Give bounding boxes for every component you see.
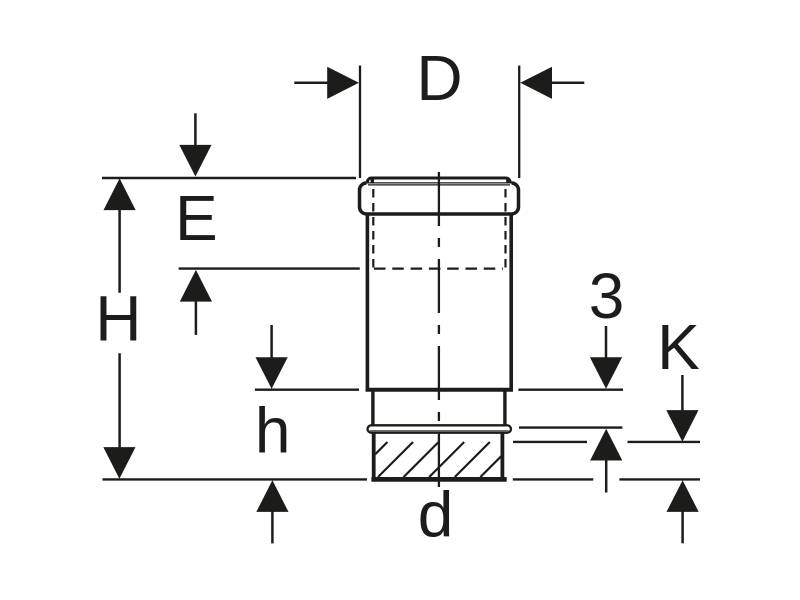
wire: h top reference line (255, 389, 359, 391)
collar right groove notch (506, 180, 509, 184)
dimension K bottom arrow (up) (667, 480, 699, 543)
seal box left wall (372, 432, 376, 479)
dimension E top arrow (down) (179, 113, 211, 176)
pipe socket collar outline (sides and bottom) (360, 183, 519, 214)
svg-text:E: E (175, 182, 218, 254)
svg-text:H: H (95, 283, 141, 355)
collar inner thin line (368, 184, 510, 186)
dimension h top arrow (down) (256, 325, 288, 389)
wire: bottom reference line left (103, 478, 368, 480)
svg-text:d: d (418, 479, 454, 551)
spigot right wall (503, 391, 506, 426)
wire: E bottom reference line (solid part) (179, 267, 360, 269)
svg-text:3: 3 (589, 260, 625, 332)
pipe body right wall (509, 215, 513, 391)
wire: D left extension line (359, 66, 361, 179)
wire: 3 top reference line (right of pipe) (518, 389, 623, 391)
dimension E bottom arrow (up) (180, 270, 212, 335)
centerline (dash-dot) (438, 172, 440, 490)
dimension K top arrow (down) (666, 375, 698, 442)
collar left groove notch (371, 180, 374, 184)
pipe body left wall (366, 215, 370, 391)
wire: bottom reference line far right (619, 478, 700, 480)
hatch lines in seal zone (352, 442, 515, 477)
dimension H vertical line with arrows (103, 178, 135, 478)
wire: H/E top reference line (102, 177, 356, 179)
dimension D left arrow (294, 67, 359, 99)
svg-text:K: K (657, 311, 700, 383)
dimension D right arrow (520, 67, 584, 99)
seal box bottom thick line (371, 477, 506, 482)
socket inner dashed wall left (372, 189, 374, 268)
wire: 3 bottom reference line (519, 426, 622, 428)
wire: K top reference line right segment (628, 441, 701, 443)
wire: K top reference line left segment (513, 441, 587, 443)
seal box right wall (500, 432, 504, 479)
dimension h bottom arrow (up) (256, 480, 288, 543)
wire: D right extension line (518, 66, 520, 179)
wire: bottom reference line mid-right (513, 478, 594, 480)
collar top thin line (366, 182, 512, 184)
dimension 3 bottom arrow (up) (590, 429, 622, 493)
pipe socket collar body fill (360, 183, 519, 214)
socket depth dashed line (374, 268, 503, 270)
bead inner thin line (370, 430, 509, 432)
svg-text:h: h (255, 395, 291, 467)
dimension 3 top arrow (down) (590, 326, 622, 389)
svg-text:D: D (416, 42, 462, 114)
pipe socket lip (top rim) (367, 178, 510, 190)
spigot left wall (371, 391, 374, 426)
step shoulder line (366, 388, 513, 392)
bead ring (368, 425, 512, 432)
socket inner dashed wall right (504, 189, 506, 268)
